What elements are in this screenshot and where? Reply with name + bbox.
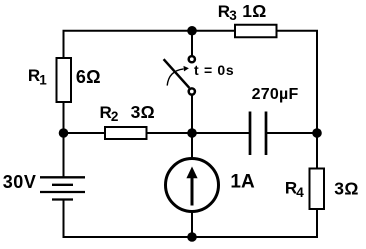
switch arc arrow head [184, 66, 189, 72]
svg-text:2: 2 [111, 109, 119, 124]
battery short plate 2 [52, 198, 73, 200]
svg-text:4: 4 [296, 185, 304, 200]
switch actuation arc arrow [167, 69, 183, 86]
battery short plate 1 [52, 184, 73, 186]
current source I1 circle [166, 159, 219, 212]
wire switch branch upper [191, 31, 193, 56]
svg-text:30V: 30V [3, 172, 37, 192]
junction dot left (battery/R2) [59, 128, 69, 138]
svg-text:1A: 1A [230, 171, 255, 192]
wire middle rail left of capacitor [64, 132, 251, 134]
battery 30V: long plate 1 [40, 176, 85, 178]
wire middle rail right of capacitor [266, 132, 317, 134]
svg-text:3Ω: 3Ω [334, 178, 358, 198]
junction dot right (capacitor/R4) [312, 128, 322, 138]
wire current source bottom [191, 209, 193, 237]
current source arrow shaft [191, 177, 194, 206]
capacitor C 270uF left plate [249, 112, 252, 156]
resistor R4 body [310, 169, 325, 210]
svg-text:1Ω: 1Ω [242, 1, 266, 21]
capacitor C 270uF right plate [265, 112, 268, 156]
switch S1 top terminal circle [189, 56, 195, 62]
battery long plate 2 [40, 191, 85, 193]
switch S1 blade [164, 59, 190, 88]
wire current source top [191, 133, 193, 162]
svg-text:6Ω: 6Ω [76, 67, 101, 87]
resistor R3 body [235, 25, 277, 38]
resistor R1 body [57, 58, 72, 102]
svg-text:t = 0s: t = 0s [194, 62, 234, 78]
resistor R2 body [105, 127, 147, 139]
current source arrow head [186, 167, 197, 179]
wire switch branch lower [191, 95, 193, 133]
svg-text:3Ω: 3Ω [131, 102, 155, 122]
junction dot middle (switch/R2/current source) [187, 128, 197, 138]
svg-text:270µF: 270µF [252, 86, 299, 103]
switch S1 bottom terminal circle [189, 88, 195, 94]
junction dot bottom (current source/bottom rail) [187, 232, 197, 242]
junction dot top (switch/top rail) [187, 26, 197, 36]
svg-text:3: 3 [229, 8, 237, 23]
wire outer loop (left rail above battery, top rail, right rail, bottom rail, left rail below battery) [64, 31, 318, 237]
svg-text:1: 1 [39, 73, 47, 88]
